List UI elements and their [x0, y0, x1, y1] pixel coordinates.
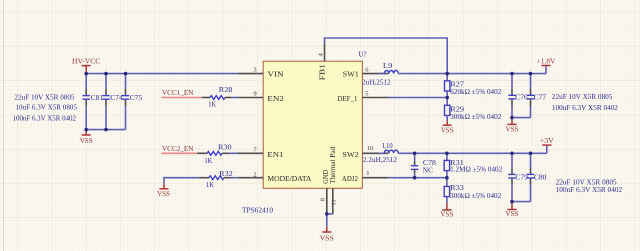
svg-text:+3V: +3V — [540, 137, 555, 145]
svg-text:100nF 6.3V X5R 0402: 100nF 6.3V X5R 0402 — [556, 186, 623, 194]
svg-text:10: 10 — [367, 145, 374, 152]
svg-text:3: 3 — [253, 67, 256, 74]
capacitor C79 — [508, 153, 528, 201]
power port +3V — [546, 146, 548, 154]
ground VSS (C79/C80) — [511, 202, 513, 210]
wire ADJ2 to divider — [388, 177, 447, 179]
svg-text:1K: 1K — [208, 100, 216, 108]
svg-text:1.2MΩ ±5% 0402: 1.2MΩ ±5% 0402 — [450, 166, 503, 174]
svg-text:300kΩ ±5% 0402: 300kΩ ±5% 0402 — [450, 192, 502, 200]
svg-text:R32: R32 — [219, 170, 233, 178]
junction dots output rail 1 — [445, 72, 449, 76]
svg-text:VSS: VSS — [80, 137, 93, 145]
pin 3 VIN — [237, 73, 263, 75]
pin 1 ADJ2 — [362, 177, 388, 179]
svg-text:VSS: VSS — [320, 235, 334, 243]
resistor R28 — [208, 86, 233, 108]
pin 10 SW2 — [362, 152, 388, 154]
ground VSS (R33) — [446, 203, 448, 210]
svg-text:C75: C75 — [130, 94, 143, 102]
inductor L9 — [383, 62, 398, 73]
capacitor C75 — [122, 74, 143, 130]
svg-text:9: 9 — [253, 91, 256, 98]
svg-text:C76: C76 — [515, 94, 528, 102]
resistor R27 — [445, 74, 502, 98]
svg-text:2: 2 — [253, 171, 256, 178]
wire VCC1_EN (red highlighted) — [161, 97, 202, 99]
ground VSS (C76/C77) — [511, 118, 513, 125]
svg-text:620kΩ ±5% 0402: 620kΩ ±5% 0402 — [450, 88, 502, 96]
svg-text:300kΩ ±5% 0402: 300kΩ ±5% 0402 — [450, 113, 502, 121]
resistor R30 — [204, 143, 232, 164]
resistor R29 — [445, 98, 502, 121]
junction dots HV rail — [84, 72, 88, 76]
ground VSS (R32) — [163, 184, 165, 189]
svg-text:VSS: VSS — [441, 126, 454, 134]
capacitor C81 — [83, 74, 104, 130]
pin 5 DEF_1 — [362, 97, 388, 99]
svg-text:FB1: FB1 — [317, 64, 326, 81]
svg-text:8: 8 — [320, 198, 327, 201]
svg-text:U?: U? — [358, 50, 366, 58]
svg-text:NC: NC — [423, 166, 433, 174]
wire FB1 loop to output node — [325, 38, 448, 74]
wire HV-VCC rail to VIN — [86, 73, 237, 75]
wire C79-C80 bottom join — [512, 201, 531, 203]
resistor R33 — [444, 178, 502, 204]
svg-text:VCC2_EN: VCC2_EN — [162, 145, 194, 153]
capacitor C77 — [527, 74, 547, 118]
pin 6 SW1 — [362, 73, 388, 75]
wire DEF_1 to divider — [388, 97, 447, 99]
svg-text:Thermal Pad: Thermal Pad — [328, 147, 337, 184]
svg-text:10uF 6.3V X5R 0805: 10uF 6.3V X5R 0805 — [16, 103, 78, 111]
resistor R32 — [206, 170, 233, 189]
svg-text:+1.8V: +1.8V — [537, 58, 556, 66]
wire to R32 — [199, 177, 209, 179]
svg-text:EN2: EN2 — [267, 94, 284, 103]
wire to R28 — [202, 97, 210, 99]
svg-text:VSS: VSS — [506, 210, 519, 218]
svg-text:MODE/DATA: MODE/DATA — [267, 174, 312, 183]
capacitor C78 — [411, 153, 437, 177]
svg-text:L9: L9 — [383, 62, 393, 70]
svg-text:VSS: VSS — [506, 126, 519, 134]
svg-text:100nF 6.3V X5R 0402: 100nF 6.3V X5R 0402 — [13, 114, 77, 122]
svg-text:1K: 1K — [206, 181, 214, 189]
pin 2 MODE/DATA — [237, 177, 263, 179]
wire GND pins join — [327, 213, 333, 215]
pin 11 Thermal Pad (bottom) — [332, 188, 334, 214]
svg-text:5: 5 — [365, 91, 368, 98]
svg-text:L10: L10 — [382, 142, 393, 150]
svg-text:C80: C80 — [534, 174, 547, 182]
capacitor C76 — [508, 74, 528, 118]
svg-text:VSS: VSS — [157, 190, 170, 198]
ground VSS (R29) — [446, 121, 448, 126]
ground VSS (IC GND) — [326, 227, 328, 232]
wire to R30 — [197, 152, 207, 154]
op-amp / regulator IC U? TPS62410 body — [263, 61, 362, 188]
pin 9 EN2 — [237, 97, 263, 99]
svg-text:C81: C81 — [91, 94, 104, 102]
svg-text:ADJ2: ADJ2 — [342, 174, 358, 183]
svg-text:C77: C77 — [534, 94, 547, 102]
wire VCC2_EN (red highlighted) — [161, 152, 197, 154]
svg-text:2.2uH,2512: 2.2uH,2512 — [363, 156, 398, 164]
svg-text:R28: R28 — [219, 86, 233, 94]
svg-text:HV-VCC: HV-VCC — [72, 57, 101, 65]
capacitor C74 — [102, 74, 123, 130]
wire SW2 to inductor — [379, 152, 385, 154]
ground VSS (left caps) — [85, 130, 87, 135]
svg-text:VCC1_EN: VCC1_EN — [162, 89, 194, 97]
svg-text:100nF 6.3V X5R 0402: 100nF 6.3V X5R 0402 — [552, 104, 619, 112]
wire C76-C77 bottom join — [512, 117, 531, 119]
svg-text:C79: C79 — [515, 174, 528, 182]
svg-text:SW1: SW1 — [343, 69, 359, 78]
svg-text:VSS: VSS — [440, 211, 453, 219]
svg-text:11: 11 — [331, 199, 338, 205]
wire L10 to +3V rail — [398, 152, 547, 154]
pin 8 GND (bottom) — [326, 188, 328, 214]
resistor R31 — [444, 153, 503, 177]
svg-text:EN1: EN1 — [267, 150, 283, 159]
capacitor C80 — [527, 153, 547, 201]
pin 4 FB1 (top) — [324, 44, 326, 61]
svg-text:R33: R33 — [450, 184, 464, 192]
svg-text:TPS62410: TPS62410 — [242, 206, 274, 214]
junction GND join — [325, 212, 329, 216]
svg-text:SW2: SW2 — [342, 150, 359, 159]
svg-text:1: 1 — [366, 170, 369, 177]
inductor L10 — [363, 142, 398, 164]
power port +1.8V — [545, 66, 547, 74]
wire VSS to R32 (corner) — [164, 178, 199, 184]
svg-text:DEF_1: DEF_1 — [338, 94, 358, 103]
svg-text:R30: R30 — [218, 143, 232, 151]
svg-text:22uF 10V X5R 0805: 22uF 10V X5R 0805 — [552, 93, 613, 101]
svg-text:C74: C74 — [110, 94, 123, 102]
svg-text:1K: 1K — [204, 157, 212, 165]
junction dots output rail 2 — [413, 152, 417, 156]
svg-text:VIN: VIN — [267, 69, 284, 78]
wire SW1 to inductor — [379, 73, 385, 75]
svg-text:22uF 10V X5R 0805: 22uF 10V X5R 0805 — [15, 93, 76, 101]
pin 7 EN1 — [237, 152, 263, 154]
sheet border line — [3, 0, 5, 251]
wire L9 to +1.8V rail — [398, 73, 546, 75]
wire caps bottom rail — [86, 129, 125, 131]
